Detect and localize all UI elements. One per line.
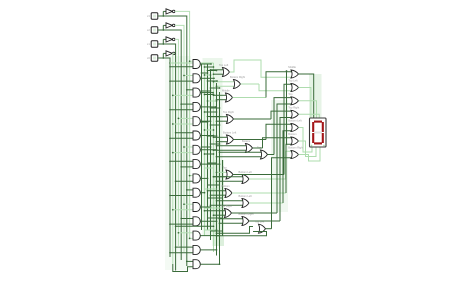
wire route Top to output stage — [268, 98, 293, 155]
or-gate Bottom Left (output) — [291, 124, 299, 132]
wire Middle to display — [299, 74, 314, 118]
wire route Top Right to output stage — [234, 111, 293, 119]
wire output AND6 — [200, 135, 214, 137]
or-gate Bottom Left (stage 2) — [242, 199, 249, 208]
wire NOT3 output — [175, 39, 179, 246]
wire inputs OR Top — [216, 151, 262, 157]
wire output AND7 — [200, 149, 217, 151]
label Top — [257, 146, 262, 150]
and-gate A13 — [193, 231, 200, 240]
wire NOT4 output — [173, 53, 175, 264]
wire route Top Left to output stage — [266, 158, 293, 229]
and-gate A14 — [193, 245, 200, 254]
or-gate Middle (output) — [291, 70, 299, 78]
svg-text:Top Left: Top Left — [288, 79, 298, 83]
7-segment display — [310, 118, 327, 147]
svg-text:Top: Top — [223, 166, 228, 170]
wire bus — [207, 64, 209, 230]
svg-text:Top: Top — [288, 92, 293, 96]
or-gate Top Left (stage 2) — [223, 68, 230, 77]
wire Bottom to display — [299, 141, 317, 157]
or-gate Top Right (stage 2) — [227, 115, 234, 124]
wire NOT1 output — [175, 11, 190, 238]
wire route Top to output stage — [233, 84, 292, 174]
label Bottom Left — [223, 131, 237, 135]
wire inputs OR Bottom — [207, 190, 226, 196]
wire inputs OR Top — [213, 171, 227, 177]
wire Top Right to display — [299, 114, 320, 118]
wire pin x3 direct — [163, 16, 187, 266]
wire inputs AND14 — [169, 246, 193, 253]
wire M14 input b — [216, 232, 267, 237]
wire pin x2 direct — [163, 30, 181, 260]
svg-text:Bottom Right: Bottom Right — [288, 146, 303, 150]
wire output AND11 — [200, 206, 211, 208]
wire output AND14 — [200, 249, 217, 251]
wire bus — [222, 160, 224, 236]
wire output AND15 — [200, 263, 220, 265]
wire inputs OR Bottom Right — [213, 81, 235, 87]
wire output AND10 — [200, 192, 205, 194]
wire Top to display — [299, 101, 317, 118]
wire pin x0 direct — [163, 58, 170, 257]
and-gate A15 — [193, 260, 200, 269]
wire bus extra — [201, 64, 203, 230]
wire inputs OR Bottom Left — [213, 176, 243, 182]
input pin x2 — [147, 27, 158, 34]
svg-text:x3: x3 — [147, 14, 150, 18]
wire bundle taps — [201, 66, 221, 155]
wire output AND5 — [200, 120, 211, 122]
wire inputs AND3 — [172, 89, 193, 96]
wire filler a — [208, 162, 217, 164]
wire route Bottom to output stage — [253, 138, 293, 148]
wire bus — [219, 92, 221, 264]
svg-text:Top Right: Top Right — [223, 110, 234, 114]
wire Bottom Left to display — [299, 128, 313, 153]
wire filler b — [205, 167, 214, 169]
wire route Bottom Left to output stage — [249, 131, 292, 203]
wire output AND9 — [200, 178, 208, 180]
inverter NOT2 — [166, 23, 175, 28]
wire inputs OR Bottom — [213, 145, 247, 151]
or-gate Middle (stage 2) — [226, 93, 233, 102]
wire filler d — [205, 188, 217, 190]
inverter NOT4 — [166, 51, 175, 56]
wire-bundle wash display — [309, 74, 322, 118]
wire from pin x3 — [158, 11, 166, 16]
label Top Right — [223, 110, 234, 114]
svg-text:Bottom: Bottom — [288, 132, 296, 136]
wire inputs OR Middle — [213, 94, 227, 100]
wire output AND13 — [200, 235, 220, 237]
wire output AND4 — [200, 106, 217, 108]
wire inputs AND6 — [169, 132, 193, 139]
wire route Bottom to output stage — [232, 144, 292, 193]
and-gate A9 — [193, 174, 200, 183]
or-gate Bottom Left (stage 2) — [227, 135, 234, 144]
wire inputs AND10 — [169, 189, 193, 196]
wire output AND8 — [200, 163, 220, 165]
wire bus — [210, 70, 212, 241]
svg-text:Top Right: Top Right — [221, 204, 232, 208]
or-gate Bottom Right (stage 2) — [234, 80, 241, 89]
inverter NOT3 — [166, 37, 175, 42]
wire inputs AND2 — [169, 75, 193, 82]
label Middle out — [288, 65, 296, 69]
wire crosser — [175, 225, 215, 227]
and-gate A2 — [193, 74, 200, 83]
svg-text:Bottom Left: Bottom Left — [239, 170, 253, 174]
wire inputs OR Top Right — [204, 210, 226, 216]
label Bottom Right — [239, 212, 254, 216]
wire Bottom Right to display — [299, 147, 321, 161]
svg-text:Top Left: Top Left — [219, 63, 229, 67]
or-gate Top Left (output) — [291, 84, 299, 92]
wire inputs AND8 — [169, 160, 193, 167]
wire bus — [216, 83, 218, 256]
wire output AND2 — [200, 77, 215, 79]
label Bottom Left — [239, 194, 253, 198]
junction output stage — [286, 70, 288, 145]
wire inputs AND5 — [172, 118, 193, 125]
svg-text:Middle: Middle — [288, 65, 296, 69]
wire inputs OR Top Left — [210, 69, 224, 75]
label Top — [223, 166, 228, 170]
label Top Left — [219, 63, 229, 67]
wire inputs AND11 — [172, 203, 193, 210]
wire route Bottom Left to output stage — [249, 151, 292, 179]
label Bottom out — [288, 132, 296, 136]
wire-bundle wash left bus — [165, 56, 191, 270]
svg-text:Bottom Left: Bottom Left — [239, 194, 253, 198]
wire from pin x2 — [158, 25, 166, 30]
wire inputs AND9 — [175, 175, 193, 182]
and-gate A3 — [193, 88, 200, 97]
svg-text:Bottom Right: Bottom Right — [230, 75, 245, 79]
label Top Left — [255, 220, 265, 224]
wire inputs AND4 — [169, 103, 193, 110]
wire output AND12 — [200, 220, 217, 222]
or-gate Bottom Right (output) — [291, 151, 299, 159]
wire-bundle wash right — [271, 100, 288, 212]
wire filler h — [211, 230, 223, 232]
svg-text:x0: x0 — [147, 56, 150, 60]
wire filler c — [208, 184, 220, 186]
inverter NOT1 — [166, 9, 175, 14]
wire inputs AND15 — [186, 261, 193, 263]
wire lower run A — [205, 229, 218, 231]
svg-text:Middle: Middle — [222, 89, 230, 93]
label Bottom — [242, 139, 250, 143]
or-gate Top Right (stage 2) — [225, 209, 232, 218]
svg-text:Top Right: Top Right — [288, 106, 299, 110]
label Bottom Left out — [288, 119, 302, 123]
and-gate A10 — [193, 188, 200, 197]
or-gate Top (stage 2) — [261, 150, 268, 159]
wire bottom hook — [173, 264, 193, 272]
label Bottom Right — [230, 75, 245, 79]
svg-text:x2: x2 — [147, 28, 150, 32]
or-gate Top Right (output) — [291, 110, 299, 118]
label Bottom Left — [239, 170, 253, 174]
wire inputs AND12 — [169, 218, 193, 225]
input pin x0 — [147, 55, 158, 62]
input pin x3 — [147, 13, 158, 20]
wire inputs AND7 — [172, 146, 193, 153]
or-gate Top Left (stage 2) — [259, 224, 266, 233]
wire M14 input a — [216, 227, 253, 235]
wire route Bottom Left to output stage — [234, 124, 293, 139]
label Top Left out — [288, 79, 298, 83]
svg-text:Bottom: Bottom — [222, 184, 230, 188]
wire inputs OR Bottom Right — [219, 218, 243, 224]
svg-text:x1: x1 — [147, 42, 150, 46]
wire filler e — [208, 197, 223, 199]
wire route Bottom Right to output stage — [241, 84, 293, 91]
wire inputs OR Top Right — [210, 116, 228, 122]
wire route Top Right to output stage — [232, 104, 293, 213]
label Top Right out — [288, 106, 299, 110]
wire filler g — [208, 217, 223, 219]
svg-text:Top Left: Top Left — [255, 220, 265, 224]
wire-bundle wash middle lower — [213, 160, 225, 246]
wire from pin x1 — [158, 39, 166, 44]
and-gate A1 — [193, 60, 200, 69]
wire pin x0 to middle bus — [169, 62, 213, 64]
or-gate Bottom (stage 2) — [246, 144, 253, 153]
wire route Top Left to output stage — [230, 60, 293, 77]
or-gate Top (output) — [291, 97, 299, 105]
wire filler f — [205, 207, 223, 209]
svg-text:Bottom Left: Bottom Left — [223, 131, 237, 135]
wire route Bottom Right to output stage — [249, 118, 292, 222]
and-gate A4 — [193, 102, 200, 111]
or-gate Bottom (stage 2) — [225, 189, 232, 198]
wire Top Left to display — [299, 88, 311, 119]
and-gate A7 — [193, 145, 200, 154]
wire output AND1 — [200, 63, 212, 65]
wire route Middle to output stage — [233, 72, 293, 98]
and-gate A11 — [193, 203, 200, 212]
wire pin x1 direct — [163, 44, 175, 271]
and-gate A6 — [193, 131, 200, 140]
or-gate Bottom (output) — [291, 137, 299, 145]
wire output AND3 — [200, 92, 214, 94]
wire inputs OR Bottom Left — [213, 136, 228, 142]
wire inputs OR Bottom Left — [210, 200, 243, 206]
and-gate A5 — [193, 117, 200, 126]
wire inputs AND13 — [178, 232, 193, 239]
and-gate A12 — [193, 217, 200, 226]
svg-text:Bottom Left: Bottom Left — [288, 119, 302, 123]
or-gate Top (stage 2) — [226, 170, 233, 179]
label Top out — [288, 92, 293, 96]
wire NOT2 output — [175, 25, 184, 252]
wire from pin x0 — [158, 53, 166, 58]
wire bus — [204, 63, 206, 236]
or-gate Bottom Left (stage 2) — [242, 175, 249, 184]
wire inputs AND1 — [169, 60, 193, 67]
wire bus — [213, 63, 215, 252]
label Middle — [222, 89, 230, 93]
and-gate A8 — [193, 160, 200, 169]
or-gate Bottom Right (stage 2) — [242, 217, 249, 226]
label Bottom — [222, 184, 230, 188]
input pin x1 — [147, 41, 158, 48]
label Bottom Right out — [288, 146, 303, 150]
label Top Right — [221, 204, 232, 208]
wire-bundle wash middle — [203, 58, 223, 236]
